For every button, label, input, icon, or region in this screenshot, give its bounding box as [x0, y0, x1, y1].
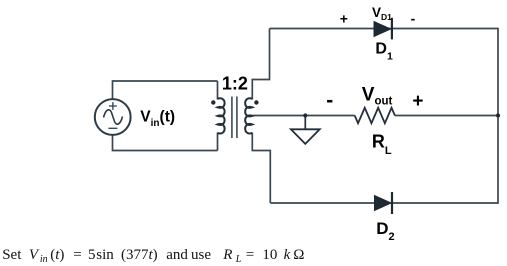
svg-text:1:2: 1:2: [222, 74, 248, 94]
transformer T1 primary winding: [218, 98, 225, 133]
diode D2 cathode bar: [391, 192, 393, 214]
wire primary-loop right lower (from winding bottom): [217, 133, 219, 151]
svg-text:+: +: [412, 91, 423, 112]
transformer T1 secondary winding: [245, 98, 252, 133]
svg-text:VD1: VD1: [372, 5, 392, 22]
wire primary-loop bottom: [112, 150, 218, 152]
ac source sine wave: [104, 110, 123, 124]
junction dot center-tap at right rail: [496, 113, 500, 117]
svg-text:D2: D2: [376, 219, 394, 243]
wire bottom rail: [270, 202, 499, 204]
diode D2 triangle: [375, 196, 392, 211]
svg-text:-: -: [411, 10, 416, 26]
transformer phase dot primary: [211, 100, 215, 104]
transformer phase dot secondary: [254, 100, 258, 104]
resistor R_L zigzag: [355, 108, 395, 123]
wire center tap to resistor: [252, 115, 354, 117]
diode D1 cathode bar: [391, 18, 393, 40]
wire secondary top lead: [252, 29, 269, 100]
ac source plus sign: [109, 102, 117, 110]
svg-text:Vout: Vout: [362, 84, 393, 107]
wire primary-loop left below source: [112, 135, 114, 151]
diode D1 triangle: [374, 22, 391, 37]
junction dot at ground node: [303, 113, 307, 117]
transformer core line right: [236, 97, 238, 139]
transformer core line left: [231, 97, 233, 139]
wire primary-loop top: [113, 80, 218, 82]
svg-text:-: -: [326, 89, 333, 112]
wire right rail: [497, 28, 499, 203]
wire primary-loop left above source: [112, 80, 114, 99]
svg-text:SetVin(t)=5sin(377t)anduseRL=1: SetVin(t)=5sin(377t)anduseRL=10kΩ: [2, 247, 304, 265]
svg-text:RL: RL: [372, 132, 392, 157]
svg-text:+: +: [340, 11, 348, 27]
svg-text:Vin(t): Vin(t): [140, 108, 175, 129]
ac source minus sign: [108, 127, 117, 129]
wire secondary bottom lead: [252, 133, 270, 203]
svg-text:D1: D1: [375, 41, 393, 63]
ac source V_in circle: [95, 99, 131, 135]
wire resistor to right rail: [395, 115, 498, 117]
wire top rail to D1 and right: [270, 28, 499, 30]
wire primary-loop right upper (to winding top): [217, 81, 219, 100]
ground symbol: [304, 116, 306, 130]
